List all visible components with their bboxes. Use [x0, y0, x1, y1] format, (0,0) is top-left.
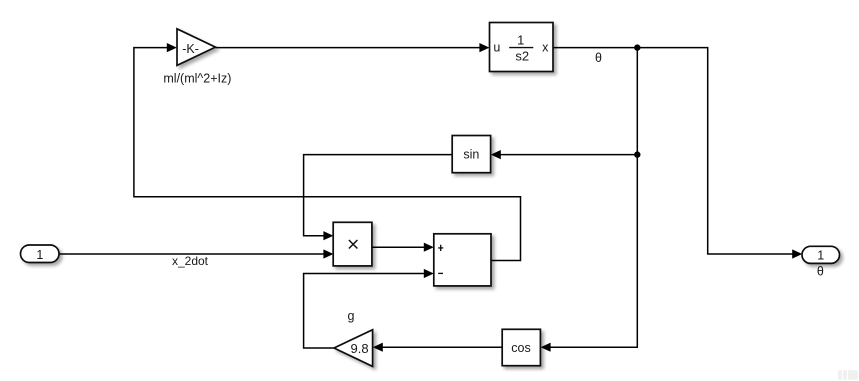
wire: cos output to Gain 9.8 input	[382, 346, 502, 348]
arrowhead into Transfer Fcn	[479, 43, 489, 52]
sin block	[452, 136, 490, 173]
svg-text:1: 1	[36, 248, 43, 262]
arrowhead into output port	[792, 249, 802, 258]
gain -K- (triangle)	[177, 29, 215, 66]
svg-text:sin: sin	[463, 148, 479, 162]
transfer fcn block U1 (1/s^2)	[490, 23, 554, 72]
fraction bar	[509, 47, 533, 49]
cos block	[502, 329, 540, 365]
arrowhead into Gain 9.8	[373, 343, 383, 352]
svg-text:x: x	[542, 41, 549, 55]
sum block	[434, 234, 491, 286]
wire: Product output to Sum + input	[372, 246, 425, 248]
svg-text:g: g	[348, 309, 355, 323]
wire: Gain 9.8 output loop up to Sum - input	[304, 274, 425, 349]
wire: Gain -K- output to Transfer Fcn input	[215, 47, 480, 49]
wire: theta branch to sin input	[500, 154, 638, 156]
wire: theta branch vertical down to cos	[550, 48, 638, 348]
junction node on theta wire	[634, 44, 640, 50]
svg-text:s2: s2	[515, 49, 529, 64]
sum minus sign	[438, 272, 443, 274]
arrowhead into Product input 1	[323, 231, 333, 240]
product block (x)	[333, 222, 372, 266]
svg-text:x_2dot: x_2dot	[172, 254, 209, 268]
arrowhead into Sum - input	[424, 269, 434, 278]
arrowhead into Sum + input	[424, 243, 434, 252]
svg-text:-K-: -K-	[182, 42, 199, 56]
input port 1	[21, 245, 60, 263]
svg-text:u: u	[493, 41, 500, 55]
svg-text:ml/(ml^2+Iz): ml/(ml^2+Iz)	[163, 71, 231, 85]
svg-text:1: 1	[817, 249, 824, 263]
arrowhead into sin block	[491, 150, 501, 159]
wire: input port x_2dot to Product input 2	[59, 253, 325, 255]
svg-text:θ: θ	[595, 51, 602, 65]
wire: Transfer Fcn output (theta) to output port	[553, 48, 794, 254]
sum plus sign	[438, 245, 443, 251]
arrowhead into cos block	[541, 343, 551, 352]
wire: Sum output feedback to Gain -K- input	[134, 48, 521, 261]
arrowhead into Product input 2	[323, 249, 333, 258]
svg-text:cos: cos	[511, 341, 530, 355]
product multiply symbol	[349, 240, 358, 249]
svg-text:9.8: 9.8	[351, 341, 369, 356]
svg-text:θ: θ	[817, 265, 824, 279]
watermark rectangles bottom right	[838, 370, 858, 380]
svg-text:1: 1	[517, 33, 524, 48]
arrowhead into gain -K-	[167, 43, 177, 52]
gain 9.8 (triangle pointing left)	[334, 330, 373, 367]
wire: sin output down to Product input 1	[304, 155, 453, 236]
output port 1	[802, 246, 840, 263]
junction node on sin branch	[634, 151, 640, 157]
